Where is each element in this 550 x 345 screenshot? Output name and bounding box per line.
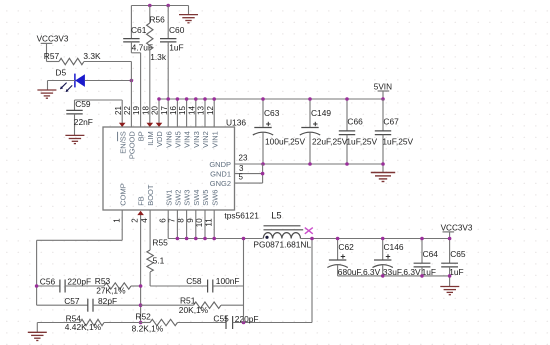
- svg-text:PGOOD: PGOOD: [128, 131, 137, 160]
- svg-text:13: 13: [197, 106, 206, 115]
- svg-text:SW2: SW2: [174, 190, 183, 206]
- svg-text:8: 8: [177, 218, 186, 223]
- pin arrow ILIM: [147, 123, 154, 127]
- wire bootstrap/sense vertical: [243, 239, 245, 323]
- svg-text:C61: C61: [131, 25, 147, 35]
- svg-text:20: 20: [151, 106, 160, 115]
- svg-text:20K,1%: 20K,1%: [179, 305, 209, 315]
- pin arrow EN/SS: [119, 123, 126, 127]
- wire FB net vertical: [140, 215, 142, 323]
- LED D5: [75, 74, 85, 87]
- svg-text:22nF: 22nF: [74, 117, 93, 127]
- junction VOUT C146: [381, 237, 385, 241]
- junction C55 node: [242, 321, 246, 325]
- junction obus corner: [448, 274, 452, 278]
- junction bus VDD: [157, 97, 161, 101]
- capacitor C62 680uF,6.3V: [337, 239, 339, 260]
- junction top rail R56: [148, 4, 152, 8]
- svg-text:PG0871.681NL: PG0871.681NL: [253, 240, 311, 250]
- svg-text:C58: C58: [186, 276, 202, 286]
- svg-text:3.3K: 3.3K: [83, 51, 101, 61]
- svg-text:SW3: SW3: [183, 190, 192, 206]
- svg-text:SW4: SW4: [192, 190, 201, 206]
- svg-text:100uF,25V: 100uF,25V: [265, 136, 305, 146]
- svg-text:2: 2: [131, 218, 140, 223]
- junction bus VIN4: [185, 97, 189, 101]
- svg-text:C149: C149: [311, 108, 331, 118]
- junction bus C66 top: [345, 97, 349, 101]
- svg-text:27K,1%: 27K,1%: [96, 285, 126, 295]
- wire SW bus: [168, 238, 262, 240]
- resistor R52 8.2K,1%: [141, 322, 150, 324]
- resistor R54 4.42K,1%: [37, 322, 80, 324]
- wire VOUT sense drop: [311, 239, 313, 323]
- svg-text:14: 14: [187, 106, 196, 115]
- wire SW pin 10: [204, 210, 206, 239]
- junction top rail C60: [166, 4, 170, 8]
- junction bus 5VIN: [381, 97, 385, 101]
- junction gnd bus C66: [345, 162, 349, 166]
- svg-text:C67: C67: [383, 116, 399, 126]
- ground (divider): [36, 323, 38, 333]
- svg-text:6: 6: [158, 218, 167, 223]
- svg-text:9: 9: [186, 218, 195, 223]
- pin arrow FB: [137, 211, 144, 215]
- junction FB/C57: [139, 303, 143, 307]
- junction SW pin 11: [212, 237, 216, 241]
- junction obus C64: [420, 274, 424, 278]
- svg-text:C64: C64: [423, 249, 439, 259]
- capacitor C65 1uF: [449, 239, 451, 264]
- junction SW pin 8: [185, 237, 189, 241]
- svg-text:GNG2: GNG2: [210, 179, 231, 188]
- wire top rail: [131, 5, 188, 7]
- wire SW pin 8: [186, 210, 188, 239]
- capacitor C149 22uF,25V: [309, 99, 311, 127]
- wire GND1 pin 3 stub: [235, 173, 263, 175]
- junction COMP/C56: [35, 284, 39, 288]
- junction FB/divider: [139, 321, 143, 325]
- svg-text:16: 16: [169, 106, 178, 115]
- svg-text:C59: C59: [75, 99, 91, 109]
- svg-text:19: 19: [132, 106, 141, 115]
- svg-text:VIN1: VIN1: [210, 131, 219, 148]
- junction SW bootstrap: [242, 237, 246, 241]
- svg-text:1uF,25V: 1uF,25V: [346, 136, 377, 146]
- junction SW pin 10: [203, 237, 207, 241]
- svg-text:EN/SS: EN/SS: [118, 131, 127, 154]
- svg-text:VIN6: VIN6: [164, 131, 173, 148]
- resistor R51 20K,1%: [141, 304, 194, 306]
- svg-text:1: 1: [112, 218, 121, 223]
- svg-text:GNDP: GNDP: [209, 160, 231, 169]
- svg-text:1.3k: 1.3k: [150, 52, 167, 62]
- ground (LED D5): [37, 89, 56, 91]
- svg-text:tps56121: tps56121: [224, 211, 259, 221]
- capacitor C61 4.7uF: [130, 6, 132, 39]
- svg-text:SW1: SW1: [164, 190, 173, 206]
- IC U136 tps56121 body: [103, 127, 235, 210]
- svg-text:FB: FB: [137, 196, 146, 206]
- svg-text:R55: R55: [152, 238, 168, 248]
- svg-text:8.2K,1%: 8.2K,1%: [132, 323, 164, 333]
- capacitor C63 100uF,25V: [262, 99, 264, 127]
- svg-text:ILIM: ILIM: [146, 131, 155, 146]
- capacitor C58 100nF: [150, 285, 208, 287]
- svg-text:U136: U136: [226, 118, 246, 128]
- wire C61 to BP pin 19: [140, 53, 142, 127]
- wire VIN1 pin 12: [213, 99, 215, 127]
- resistor R53 27K,1%: [104, 283, 131, 289]
- ground (top rail): [188, 6, 190, 15]
- capacitor C55 220pF: [225, 316, 227, 329]
- inductor L5 PG0871.681NL: [264, 225, 301, 227]
- junction VOUT VCC3V3: [448, 237, 452, 241]
- svg-text:C55: C55: [213, 313, 229, 323]
- junction bus VIN6: [166, 97, 170, 101]
- svg-text:10: 10: [195, 218, 204, 227]
- svg-text:17: 17: [160, 106, 169, 115]
- capacitor C64 1uF: [421, 239, 423, 264]
- svg-text:C60: C60: [169, 25, 185, 35]
- wire C59 to EN/SS pin 21: [75, 99, 123, 101]
- resistor R55 5.1: [149, 210, 151, 250]
- resistor R56 1.3k: [149, 6, 151, 24]
- svg-text:VDD: VDD: [155, 131, 164, 147]
- junction bus C149 top: [308, 97, 312, 101]
- wire VIN6 pin 17: [167, 99, 169, 127]
- wire GNDP ground bus: [235, 163, 384, 165]
- svg-text:7: 7: [168, 218, 177, 223]
- wire LED cathode to ground: [48, 80, 75, 82]
- wire GNG2 pin 5 stub: [235, 182, 263, 184]
- junction VOUT sense: [310, 237, 314, 241]
- svg-text:82pF: 82pF: [98, 296, 117, 306]
- svg-text:1uF,25V: 1uF,25V: [382, 136, 413, 146]
- capacitor C66 1uF,25V: [346, 99, 348, 131]
- svg-text:SW6: SW6: [210, 190, 219, 206]
- junction SW pin 9: [194, 237, 198, 241]
- wire LED anode to PGOOD node: [85, 80, 131, 82]
- junction gnd bus C149: [308, 162, 312, 166]
- svg-text:100nF: 100nF: [216, 276, 240, 286]
- wire output ground bus: [338, 275, 450, 277]
- svg-text:22: 22: [123, 106, 132, 115]
- svg-text:BP: BP: [137, 131, 146, 141]
- wire 5V input bus: [159, 98, 383, 100]
- svg-text:C63: C63: [264, 108, 280, 118]
- svg-text:21: 21: [114, 106, 123, 115]
- svg-text:VIN2: VIN2: [201, 131, 210, 148]
- wire VIN2 pin 13: [204, 99, 206, 127]
- junction gnd bus C63: [261, 162, 265, 166]
- svg-text:GND1: GND1: [210, 169, 231, 178]
- svg-text:C56: C56: [40, 277, 56, 287]
- svg-text:VCC3V3: VCC3V3: [441, 223, 473, 232]
- svg-text:R51: R51: [180, 295, 196, 305]
- svg-text:VIN4: VIN4: [183, 131, 192, 148]
- svg-text:COMP: COMP: [118, 183, 127, 206]
- junction VOUT C62: [336, 237, 340, 241]
- wire VIN4 pin 15: [186, 99, 188, 127]
- ground (input caps): [382, 164, 384, 172]
- svg-text:D5: D5: [55, 68, 66, 78]
- svg-text:5.1: 5.1: [153, 256, 165, 266]
- wire R56 to ILIM pin 18: [149, 50, 151, 127]
- ground (output caps): [449, 276, 451, 286]
- svg-text:SW5: SW5: [201, 190, 210, 206]
- svg-text:15: 15: [178, 106, 187, 115]
- svg-text:L5: L5: [271, 210, 281, 220]
- junction FB/R53: [139, 284, 143, 288]
- svg-text:12: 12: [206, 106, 215, 115]
- junction bus VIN5: [176, 97, 180, 101]
- svg-text:VIN3: VIN3: [192, 131, 201, 148]
- capacitor C59 22nF: [74, 100, 76, 110]
- junction GND1 join: [261, 172, 265, 176]
- wire COMP pin 1 loop: [121, 210, 123, 240]
- junction bus VIN1: [212, 97, 216, 101]
- junction obus C146: [381, 274, 385, 278]
- capacitor C60 1uF: [167, 6, 169, 39]
- junction VOUT C64: [420, 237, 424, 241]
- svg-text:4.42K,1%: 4.42K,1%: [65, 322, 102, 332]
- wire VIN3 pin 14: [195, 99, 197, 127]
- junction bus VIN3: [194, 97, 198, 101]
- capacitor C56 220pF: [37, 285, 60, 287]
- wire SW pin 7: [176, 210, 178, 239]
- svg-text:5VIN: 5VIN: [374, 82, 392, 91]
- wire SW pin 6: [167, 210, 169, 239]
- wire VOUT bus: [301, 238, 450, 240]
- pin arrow VDD: [156, 123, 163, 127]
- capacitor C67 1uF,25V: [382, 99, 384, 131]
- junction bus VIN2: [203, 97, 207, 101]
- svg-text:VIN5: VIN5: [174, 131, 183, 148]
- svg-text:C65: C65: [450, 249, 466, 259]
- svg-text:C57: C57: [64, 296, 80, 306]
- junction gnd bus corner: [381, 162, 385, 166]
- svg-text:VCC3V3: VCC3V3: [37, 34, 69, 43]
- ground (C59): [65, 134, 84, 136]
- svg-text:R56: R56: [149, 15, 165, 25]
- svg-text:C146: C146: [384, 242, 404, 252]
- wire VDD pin 20: [158, 99, 160, 127]
- svg-text:R57: R57: [44, 51, 60, 61]
- svg-text:23: 23: [239, 153, 248, 162]
- no-connect X marker: [305, 228, 313, 234]
- svg-text:18: 18: [141, 106, 150, 115]
- svg-text:220pF: 220pF: [235, 314, 259, 324]
- svg-text:5: 5: [239, 172, 244, 181]
- svg-text:4: 4: [140, 218, 149, 223]
- svg-text:R52: R52: [135, 311, 151, 321]
- junction SW pin 7: [176, 237, 180, 241]
- svg-text:22uF,25V: 22uF,25V: [312, 136, 348, 146]
- wire SW pin 9: [195, 210, 197, 239]
- svg-text:C66: C66: [347, 116, 363, 126]
- wire PGOOD net pin 22: [130, 62, 132, 128]
- capacitor C146 33uF,6.3V: [382, 239, 384, 260]
- svg-text:220pF: 220pF: [67, 277, 91, 287]
- wire VIN5 pin 16: [176, 99, 178, 127]
- junction bus C63 top: [261, 97, 265, 101]
- svg-text:C62: C62: [338, 242, 354, 252]
- svg-text:1uF: 1uF: [169, 42, 183, 52]
- svg-text:11: 11: [204, 218, 213, 227]
- capacitor C57 82pF: [37, 304, 88, 306]
- resistor R57 3.3K: [47, 61, 60, 63]
- svg-text:BOOT: BOOT: [146, 184, 155, 206]
- junction PGOOD/LED node: [130, 79, 134, 83]
- wire SW pin 11: [213, 210, 215, 239]
